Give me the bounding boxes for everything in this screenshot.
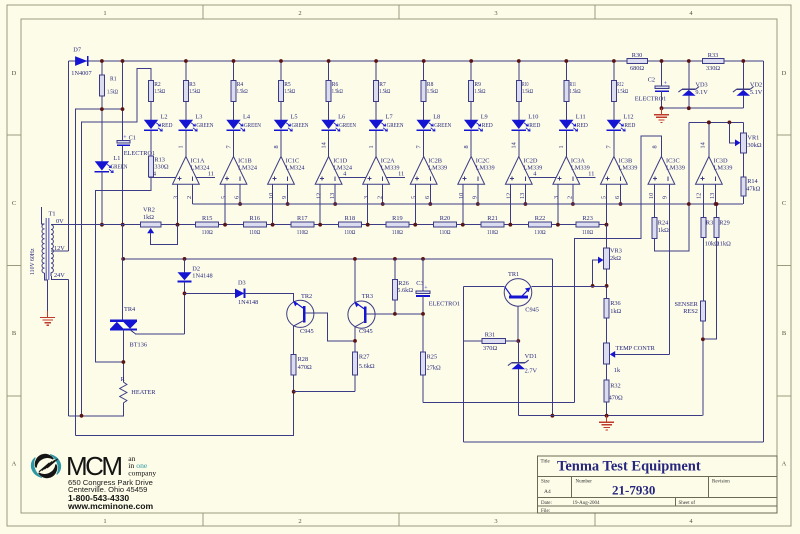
resistor R11: [564, 81, 569, 102]
wire R14 bottom to bus: [743, 196, 745, 204]
svg-text:Date:: Date:: [541, 501, 552, 506]
op-amp IC2A pin4 stub: [339, 177, 366, 179]
svg-text:TR2: TR2: [301, 293, 312, 300]
svg-text:1kΩ: 1kΩ: [610, 308, 621, 315]
resistor R10: [516, 81, 521, 102]
resistor R25: [421, 352, 426, 375]
wire rail to R5: [280, 61, 282, 81]
transformer core: [45, 218, 47, 280]
resistor R26: [392, 280, 397, 300]
wire VD1 bottom: [517, 369, 519, 416]
resistor R5: [279, 81, 284, 102]
wire y259 to D2: [184, 259, 186, 272]
svg-text:10: 10: [458, 193, 465, 199]
svg-text:VR2: VR2: [143, 207, 155, 214]
resistor R36: [604, 299, 609, 319]
svg-text:RED: RED: [577, 122, 588, 129]
svg-text:RED: RED: [482, 122, 493, 129]
wire rail to R4: [233, 61, 235, 81]
pot VR2 wiper arrow: [147, 228, 154, 233]
wire IC1C output up: [280, 131, 282, 157]
junction IC2D inv bus: [524, 202, 528, 206]
op-amp IC2A plus mark: [368, 178, 372, 180]
wire TR4 column: [122, 225, 124, 321]
op-amp IC1A: [173, 157, 200, 185]
svg-text:10: 10: [648, 193, 655, 199]
svg-text:1.5kΩ: 1.5kΩ: [107, 89, 118, 96]
resistor R8: [421, 81, 426, 102]
pot VR3: [604, 248, 610, 269]
junction chain tap 4: [318, 223, 322, 227]
svg-text:13: 13: [519, 193, 526, 199]
svg-text:+: +: [123, 135, 127, 141]
svg-text:B: B: [12, 330, 17, 337]
wire VD1 top: [517, 341, 519, 363]
resistor R2: [149, 81, 154, 102]
ground transformer: [47, 311, 49, 318]
op-amp IC2D minus mark: [524, 176, 526, 180]
wire rail to 12V tap: [67, 61, 69, 251]
svg-text:11: 11: [588, 170, 594, 177]
svg-text:L9: L9: [481, 114, 488, 121]
svg-text:R24: R24: [658, 219, 669, 226]
pot VR1: [741, 133, 747, 153]
junction VD3 ground line: [687, 106, 691, 110]
svg-text:GREEN: GREEN: [387, 122, 404, 129]
svg-text:R30: R30: [632, 52, 643, 59]
wire rail to R7: [375, 61, 377, 81]
svg-text:0V: 0V: [56, 218, 64, 225]
svg-text:1k: 1k: [614, 367, 621, 374]
wire L2 to R13: [150, 131, 152, 156]
ground top right: [661, 108, 663, 115]
svg-text:VR1: VR1: [747, 134, 759, 141]
svg-text:10: 10: [268, 193, 275, 199]
svg-text:LM339: LM339: [666, 164, 685, 171]
op-amp IC2C plus mark: [463, 178, 467, 180]
wire IC2D output up: [518, 131, 520, 157]
svg-text:110Ω: 110Ω: [249, 229, 260, 236]
junction VR3-R36 node: [605, 284, 609, 288]
op-amp IC1D plus mark: [320, 178, 324, 180]
wire R6 to L6: [328, 102, 330, 120]
svg-text:company: company: [128, 469, 156, 478]
svg-text:R18: R18: [345, 215, 356, 222]
wire IC3B inv input down: [620, 184, 622, 204]
wire R29 top to bus: [716, 204, 718, 217]
op-amp IC3B minus mark: [620, 176, 622, 180]
wire R1 to L1: [101, 96, 103, 161]
wire rail to R1: [101, 61, 103, 75]
wire SENSER bottom: [702, 321, 704, 416]
diode D3: [235, 289, 244, 299]
wire chain seg R23 right: [599, 224, 606, 226]
svg-text:1N4007: 1N4007: [71, 70, 91, 77]
svg-text:LM339: LM339: [476, 164, 495, 171]
resistor R34: [701, 217, 706, 237]
junction IC1B inv bus: [238, 202, 242, 206]
svg-text:3: 3: [494, 518, 497, 525]
svg-text:R33: R33: [708, 52, 719, 59]
op-amp IC1B: [220, 157, 247, 185]
title block col sheet: [675, 497, 677, 506]
wire IC3D inv input down: [715, 184, 717, 204]
diode D2: [178, 272, 192, 280]
op-amp IC1D: [315, 157, 342, 185]
wire IC1D noninv input down: [319, 184, 321, 224]
resistor R12: [611, 81, 616, 102]
junction C2 ground: [660, 106, 664, 110]
junction chain tap 1: [176, 223, 180, 227]
wire R7 to L7: [375, 102, 377, 120]
svg-text:110V 60Hz: 110V 60Hz: [30, 248, 36, 275]
svg-text:VR3: VR3: [610, 248, 622, 255]
junction TR3 R27 node: [353, 339, 357, 343]
svg-text:7: 7: [416, 145, 423, 148]
op-amp IC2D plus mark: [510, 178, 514, 180]
wire IC3A inv input down: [572, 184, 574, 204]
svg-text:R13: R13: [154, 157, 165, 164]
resistor R7: [374, 81, 379, 102]
junction IC1D inv bus: [333, 202, 337, 206]
junction chain tap 6: [413, 223, 417, 227]
svg-text:6: 6: [614, 196, 621, 199]
junction rail R4: [232, 59, 236, 63]
svg-text:1.5kΩ: 1.5kΩ: [379, 88, 390, 95]
wire R2 jog: [82, 68, 152, 416]
svg-text:C945: C945: [300, 328, 314, 335]
op-amp IC1C: [268, 157, 295, 185]
wire rail to C2: [661, 61, 663, 86]
zener VD3: [682, 90, 696, 96]
svg-text:L6: L6: [338, 114, 345, 121]
wire R4 to L4: [233, 102, 235, 120]
junction IC3D inv bus: [714, 202, 718, 206]
op-amp IC3A pin4 stub: [529, 177, 556, 179]
wire 24V to heater line: [67, 280, 69, 416]
svg-text:13: 13: [329, 193, 336, 199]
op-amp IC3C: [648, 157, 675, 185]
junction R32 ground node: [605, 414, 609, 418]
svg-text:8: 8: [273, 145, 280, 148]
frame column divider: [202, 5, 204, 19]
svg-text:9: 9: [662, 196, 669, 199]
wire VR2 wiper return: [151, 225, 178, 245]
svg-text:L2: L2: [161, 114, 168, 121]
svg-text:2.7V: 2.7V: [525, 367, 538, 374]
svg-text:R20: R20: [440, 215, 451, 222]
wire inverting input bus: [193, 203, 744, 205]
wire rail to R6: [328, 61, 330, 81]
svg-text:3: 3: [553, 196, 560, 199]
wire L1 to 0V line: [101, 172, 103, 225]
title block row line 2: [538, 496, 778, 498]
svg-text:110Ω: 110Ω: [582, 229, 593, 236]
wire R36 to TEMP: [606, 318, 608, 343]
wire rail to C1: [122, 61, 124, 140]
resistor R30: [627, 59, 648, 64]
wire IC2C inv input down: [477, 184, 479, 204]
wire top rail mid segment: [648, 60, 703, 62]
logo swoosh black upper left: [35, 454, 54, 468]
wire chain seg R22 left: [510, 224, 528, 226]
svg-text:R31: R31: [485, 332, 496, 339]
svg-text:R7: R7: [379, 81, 386, 88]
svg-text:L10: L10: [528, 114, 538, 121]
svg-text:LM324: LM324: [286, 164, 306, 171]
svg-text:110Ω: 110Ω: [202, 229, 213, 236]
wire IC2D inv input down: [524, 184, 526, 204]
wire chain seg R22 right: [552, 224, 558, 226]
wire R9 to L9: [470, 102, 472, 120]
wire R3 to L3: [185, 102, 187, 120]
svg-text:2: 2: [298, 10, 301, 17]
wire chain end to VR3: [606, 225, 608, 248]
wire R13 return: [96, 177, 152, 362]
junction L1 0V: [100, 223, 104, 227]
wire IC1A inv input down: [192, 184, 194, 204]
svg-text:Revision: Revision: [712, 480, 730, 485]
svg-text:14: 14: [511, 141, 518, 148]
svg-text:1: 1: [103, 518, 106, 525]
svg-text:A: A: [12, 460, 17, 467]
wire IC3B noninv input down: [606, 184, 608, 224]
junction y259 D2: [183, 257, 187, 261]
wire chain seg R19 right: [409, 224, 415, 226]
svg-text:R11: R11: [570, 81, 577, 88]
wire rail to VD3: [688, 61, 690, 89]
op-amp IC3D: [696, 157, 723, 185]
wire IC1B noninv input down: [224, 184, 226, 224]
op-amp IC1A pin11 stub: [196, 177, 215, 179]
junction rail C1: [121, 59, 125, 63]
op-amp IC1C minus mark: [287, 176, 289, 180]
wire ground line y108: [662, 107, 744, 109]
op-amp IC1D minus mark: [334, 176, 336, 180]
wire IC2C output up: [470, 131, 472, 157]
junction D2 D3 node: [183, 292, 187, 296]
svg-text:6: 6: [234, 196, 241, 199]
junction rail R8: [422, 59, 426, 63]
svg-text:Sheet of: Sheet of: [679, 501, 696, 506]
svg-text:R17: R17: [297, 215, 308, 222]
wire D3 to TR2: [245, 293, 294, 301]
led L2: [144, 120, 158, 129]
svg-text:9: 9: [281, 196, 288, 199]
wire TEMP wiper: [615, 353, 669, 355]
logo swoosh teal upper right: [50, 454, 61, 475]
svg-text:ELECTRO1: ELECTRO1: [429, 300, 460, 307]
svg-text:LM324: LM324: [238, 164, 258, 171]
pot TEMP CONTR: [604, 343, 610, 364]
svg-text:1.5kΩ: 1.5kΩ: [427, 88, 438, 95]
title block row line 1: [538, 476, 778, 478]
wire R12 to L12: [613, 102, 615, 120]
svg-text:A4: A4: [544, 489, 551, 495]
resistor R21: [481, 222, 504, 227]
capacitor C1: [117, 140, 130, 143]
op-amp IC2B: [410, 157, 437, 185]
junction chain tap 3: [271, 223, 275, 227]
svg-text:110Ω: 110Ω: [392, 229, 403, 236]
wire R26 top: [394, 259, 396, 280]
pot VR1 wiper arrow: [735, 139, 741, 146]
svg-text:1.5kΩ: 1.5kΩ: [237, 88, 248, 95]
wire bottom mid line y415: [519, 415, 703, 417]
junction IC1C inv bus: [286, 202, 290, 206]
resistor R28: [291, 354, 296, 375]
resistor R9: [469, 81, 474, 102]
op-amp IC1C plus mark: [272, 178, 276, 180]
resistor R19: [386, 222, 409, 227]
wire chain seg R19 left: [368, 224, 386, 226]
resistor R23: [576, 222, 599, 227]
frame column divider: [398, 5, 400, 19]
svg-text:L4: L4: [243, 114, 251, 121]
resistor R13: [149, 156, 154, 177]
wire chain seg R21 right: [504, 224, 510, 226]
svg-text:VD2: VD2: [750, 81, 762, 88]
svg-text:R6: R6: [332, 81, 339, 88]
wire IC3A noninv input down: [557, 184, 559, 224]
junction rail R9: [469, 59, 473, 63]
ground bottom middle: [606, 416, 608, 423]
svg-text:3: 3: [363, 196, 370, 199]
wire chain seg R20 right: [456, 224, 462, 226]
wire rail to R3: [185, 61, 187, 81]
wire C3 top: [422, 259, 424, 291]
svg-text:1N4148: 1N4148: [238, 299, 258, 306]
wire VR3 bottom to R36: [606, 269, 608, 298]
wire primary top stub: [42, 207, 45, 224]
led L5: [274, 120, 288, 129]
pot VR3 wiper arrow: [598, 257, 603, 264]
junction IC3A inv bus: [571, 202, 575, 206]
wire rail to VD2: [742, 61, 744, 89]
junction IC3B inv bus: [619, 202, 623, 206]
wire VR3 wiper: [593, 260, 598, 286]
svg-text:R25: R25: [427, 354, 438, 361]
wire IC3B output up: [613, 131, 615, 157]
wire TR1 collector down: [517, 306, 519, 341]
junction R1-C1 node: [100, 107, 104, 111]
wire VD3 bottom: [688, 96, 690, 109]
wire chain seg R17 left: [273, 224, 291, 226]
junction C3 TR3 line: [421, 312, 425, 316]
resistor R heater: [120, 382, 127, 403]
junction rail VD3: [687, 59, 691, 63]
wire primary bottom: [44, 273, 47, 311]
wire R5 to L5: [280, 102, 282, 120]
resistor R24: [652, 217, 657, 238]
frame row divider: [7, 265, 21, 267]
svg-text:Number: Number: [576, 480, 593, 485]
wire chain seg R18 left: [320, 224, 338, 226]
svg-text:110Ω: 110Ω: [439, 229, 450, 236]
svg-text:24V: 24V: [54, 272, 65, 279]
wire IC2B output up: [423, 131, 425, 157]
wire chain seg R23 left: [558, 224, 576, 226]
wire R31 left: [464, 340, 482, 342]
junction VR1 wiper node: [728, 121, 732, 125]
op-amp IC2A: [363, 157, 390, 185]
svg-text:+: +: [424, 286, 428, 292]
wire IC2B inv input down: [429, 184, 431, 204]
wire top rail right segment: [724, 60, 764, 62]
wire chain seg R15 left: [178, 224, 196, 226]
wire R2 to L2: [150, 102, 152, 120]
junction y259 TR4 col: [121, 257, 125, 261]
wire R31 right: [506, 340, 519, 342]
wire R28 bottom: [293, 375, 295, 436]
svg-text:LM339: LM339: [381, 164, 400, 171]
svg-text:5: 5: [220, 196, 227, 199]
svg-text:19-Aug-2004: 19-Aug-2004: [573, 501, 600, 506]
wire IC1B output up: [233, 131, 235, 157]
wire TR4 gate: [130, 330, 185, 334]
svg-text:R23: R23: [582, 215, 593, 222]
logo swoosh hatch: [39, 463, 50, 472]
junction IC2B inv bus: [428, 202, 432, 206]
svg-text:RED: RED: [624, 122, 635, 129]
svg-text:470Ω: 470Ω: [298, 364, 312, 371]
svg-text:R3: R3: [189, 81, 196, 88]
wire VR1 to R14: [743, 153, 745, 177]
junction y259 R26: [393, 257, 397, 261]
title block row line 3: [538, 505, 778, 507]
wire VR1 top: [743, 122, 745, 132]
junction rail R11: [564, 59, 568, 63]
junction rail R10: [517, 59, 521, 63]
op-amp IC2C minus mark: [477, 176, 479, 180]
svg-text:1.5kΩ: 1.5kΩ: [522, 88, 533, 95]
junction rail R12: [612, 59, 616, 63]
svg-text:R16: R16: [250, 215, 261, 222]
wire IC3D noninv to R34: [702, 184, 704, 217]
wire R27 bottom: [354, 375, 356, 392]
op-amp IC1A minus mark: [192, 176, 194, 180]
wire R34 bottom to SENSER: [702, 238, 704, 302]
transistor TR3: [348, 301, 375, 328]
svg-text:9: 9: [471, 196, 478, 199]
svg-text:110Ω: 110Ω: [535, 229, 546, 236]
junction rail R7: [374, 59, 378, 63]
wire IC1A output up: [185, 131, 187, 157]
svg-text:110Ω: 110Ω: [487, 229, 498, 236]
title block col revision: [708, 477, 710, 498]
wire IC3C inv input long: [669, 184, 671, 354]
wire IC3A output up: [565, 131, 567, 157]
junction rail R5: [279, 59, 283, 63]
junction C1 R1 link: [121, 107, 125, 111]
junction rail VD2: [741, 59, 745, 63]
led L1: [95, 161, 109, 170]
op-amp IC3B: [601, 157, 628, 185]
op-amp IC2B plus mark: [415, 178, 419, 180]
svg-text:2: 2: [376, 196, 383, 199]
svg-text:TEMP CONTR: TEMP CONTR: [615, 345, 655, 352]
junction R26 TR3 line: [393, 312, 397, 316]
wire rail to R10: [518, 61, 520, 81]
wire R8 to L8: [423, 102, 425, 120]
wire R24 loop: [655, 122, 689, 251]
resistor R29: [714, 217, 719, 237]
junction IC3D out line: [707, 121, 711, 125]
svg-text:BT136: BT136: [130, 342, 148, 349]
svg-text:R14: R14: [747, 178, 758, 185]
svg-text:R29: R29: [719, 219, 730, 226]
wire R1/C1 node down-left vertical: [75, 109, 122, 436]
